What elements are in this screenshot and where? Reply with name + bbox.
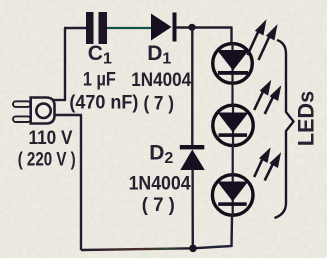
LED D4 <box>213 104 253 147</box>
svg-text:1 µF: 1 µF <box>83 70 116 91</box>
diode D1 <box>151 13 177 42</box>
wire bottom rail <box>81 246 232 250</box>
svg-text:LEDs: LEDs <box>294 91 319 147</box>
wire LED2-LED3 <box>232 146 234 173</box>
svg-text:110 V: 110 V <box>29 128 73 149</box>
LED D5 <box>212 173 253 217</box>
node junction top <box>188 24 195 31</box>
wire D2 branch vertical lower <box>191 169 194 249</box>
wire left branch vertical <box>80 115 82 250</box>
svg-text:( 7 ): ( 7 ) <box>142 195 175 216</box>
wire plug top connect <box>53 99 66 101</box>
node junction bottom <box>189 245 197 253</box>
LED D3 <box>213 43 253 85</box>
LED D5 light arrows <box>254 151 279 181</box>
LED D3 light arrows <box>248 23 276 60</box>
wire plug side connect <box>54 114 82 116</box>
AC plug P1 <box>13 98 55 124</box>
svg-text:1N4004: 1N4004 <box>129 173 191 194</box>
svg-text:( 220 V ): ( 220 V ) <box>18 149 76 170</box>
wire top-left vertical (plug to top rail) <box>64 28 66 100</box>
LED D4 light arrows <box>254 84 279 115</box>
wire LED1-LED2 <box>231 84 233 104</box>
diode D2 <box>180 145 205 170</box>
brace for LED group <box>275 40 294 218</box>
wire D1 to LED branch <box>176 26 232 28</box>
svg-text:( 7 ): ( 7 ) <box>143 94 174 115</box>
wire D2 branch vertical upper <box>191 27 193 146</box>
wire LED3 to bottom rail <box>230 216 233 247</box>
svg-text:1N4004: 1N4004 <box>131 70 191 91</box>
wire top rail left segment <box>64 27 87 29</box>
wire C1 to D1 <box>107 27 151 29</box>
wire down to LED1 <box>230 27 232 44</box>
svg-text:(470 nF): (470 nF) <box>69 93 138 114</box>
capacitor C1 <box>86 12 107 44</box>
